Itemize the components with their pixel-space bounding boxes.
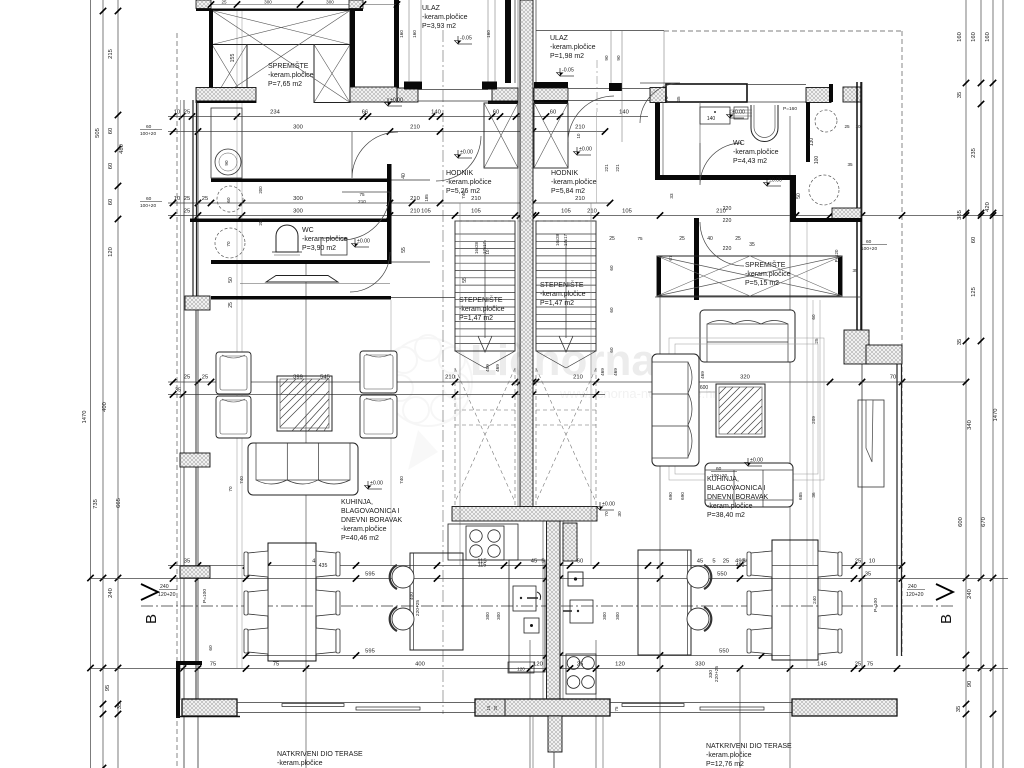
wc left toilet [276, 225, 298, 252]
svg-text:±0.00: ±0.00 [390, 98, 403, 104]
svg-text:25: 25 [814, 338, 819, 344]
svg-text:33: 33 [669, 193, 674, 199]
svg-text:550: 550 [719, 649, 729, 655]
sink right [570, 600, 593, 623]
svg-text:690: 690 [680, 492, 685, 500]
counter box 120 left [508, 662, 534, 673]
svg-text:210: 210 [358, 199, 366, 204]
svg-text:P=100: P=100 [873, 598, 879, 612]
svg-text:70: 70 [226, 241, 231, 247]
svg-text:P=4,43 m2: P=4,43 m2 [733, 158, 767, 165]
svg-text:60: 60 [108, 199, 114, 205]
svg-text:35: 35 [865, 572, 871, 578]
dim line y131 [168, 131, 605, 133]
dim line y215 full width [168, 215, 1003, 217]
svg-text:209: 209 [811, 416, 816, 424]
svg-text:35: 35 [957, 339, 963, 345]
island left unit [410, 553, 463, 650]
svg-text:100: 100 [814, 156, 820, 165]
svg-text:469: 469 [495, 364, 500, 372]
svg-text:60: 60 [609, 307, 614, 313]
svg-text:420: 420 [985, 202, 991, 212]
svg-text:10: 10 [869, 559, 875, 565]
stair flight left outline [455, 221, 515, 351]
svg-text:220: 220 [723, 206, 732, 212]
right unit hatched pier wc north [806, 88, 831, 103]
dining chair right 1 [751, 551, 772, 577]
wc right west edge line [699, 102, 701, 175]
central party wall upper [520, 0, 533, 507]
svg-text:-0.05: -0.05 [562, 68, 574, 74]
terrace wall hatched left cap [182, 699, 237, 716]
svg-text:120+20: 120+20 [158, 592, 176, 598]
svg-text:105: 105 [471, 209, 481, 215]
svg-text:WC: WC [733, 140, 745, 147]
washing machine circle [215, 149, 241, 175]
svg-text:25: 25 [202, 375, 208, 381]
svg-text:35: 35 [852, 268, 858, 273]
level mark top left [385, 98, 404, 107]
svg-text:210: 210 [410, 125, 420, 131]
sofa right unit south [705, 463, 793, 507]
stair dashed top boundary [455, 220, 596, 222]
door axis dash-dot ulaz right [596, 60, 598, 112]
svg-text:-keram.pločice: -keram.pločice [745, 271, 791, 278]
ulaz right top edge line [536, 30, 664, 32]
svg-text:45: 45 [531, 559, 537, 565]
svg-text:215: 215 [108, 49, 114, 59]
svg-text:HODNIK: HODNIK [446, 170, 474, 177]
svg-text:100+20: 100+20 [861, 246, 877, 252]
svg-text:P=100: P=100 [202, 589, 208, 603]
svg-text:1470: 1470 [82, 411, 88, 424]
stove left [466, 526, 504, 560]
svg-text:P=3,93 m2: P=3,93 m2 [422, 23, 456, 30]
svg-text:399: 399 [293, 375, 303, 381]
svg-text:300: 300 [293, 209, 303, 215]
section marker B right [936, 584, 953, 600]
svg-text:240: 240 [908, 584, 917, 590]
svg-text:NATKRIVENI DIO TERASE: NATKRIVENI DIO TERASE [706, 743, 792, 750]
armchair left 1 [216, 352, 251, 394]
svg-text:-keram.pločice: -keram.pločice [550, 44, 596, 51]
svg-text:55: 55 [401, 247, 407, 253]
svg-text:70: 70 [604, 511, 610, 517]
dining chair left 1 [248, 551, 268, 577]
svg-text:469: 469 [600, 368, 605, 376]
svg-text:P=12,76 m2: P=12,76 m2 [706, 761, 744, 768]
svg-text:160: 160 [985, 32, 991, 42]
svg-text:P=1,47 m2: P=1,47 m2 [540, 300, 574, 307]
svg-text:595: 595 [365, 649, 375, 655]
ulaz right mullions [610, 31, 612, 83]
svg-text:-keram.pločice: -keram.pločice [733, 149, 779, 156]
svg-text:60: 60 [609, 347, 614, 353]
svg-text:740: 740 [399, 476, 404, 484]
svg-text:SPREMIŠTE: SPREMIŠTE [268, 61, 309, 70]
svg-text:-keram.pločice: -keram.pločice [268, 72, 314, 79]
svg-text:60: 60 [146, 196, 152, 202]
dining chair right 6 [818, 628, 838, 654]
svg-text:125: 125 [971, 287, 977, 297]
level mark wc right shelf [727, 110, 746, 119]
svg-text:25: 25 [723, 559, 729, 565]
svg-text:55: 55 [462, 277, 468, 283]
svg-text:740: 740 [461, 191, 466, 199]
island stool right 1 [687, 566, 709, 588]
svg-text:120: 120 [108, 247, 114, 257]
left unit wardrobe trapezoid [266, 276, 338, 283]
svg-text:435: 435 [319, 563, 328, 569]
svg-text:60: 60 [866, 239, 872, 245]
svg-text:P=5,15 m2: P=5,15 m2 [745, 280, 779, 287]
stove right [566, 654, 596, 694]
level mark living left [365, 481, 384, 490]
dining chair right 2 [751, 590, 772, 616]
svg-text:95: 95 [105, 685, 111, 691]
svg-text:120: 120 [517, 667, 525, 672]
wall layer line left [180, 100, 182, 700]
svg-text:240: 240 [160, 584, 169, 590]
svg-text:B: B [938, 614, 955, 624]
svg-text:480: 480 [119, 144, 125, 154]
svg-text:210: 210 [575, 196, 585, 202]
terrace wall hatched right cap [792, 699, 897, 716]
svg-text:60: 60 [146, 124, 152, 130]
svg-text:35: 35 [847, 162, 853, 167]
svg-text:-keram.pločice: -keram.pločice [302, 236, 348, 243]
svg-text:60: 60 [208, 645, 214, 651]
storage spremiste right X box [657, 256, 842, 296]
svg-text:-keram.pločice: -keram.pločice [459, 306, 505, 313]
svg-text:75: 75 [614, 706, 619, 711]
armchair left 4 [360, 395, 397, 438]
svg-text:300: 300 [615, 612, 620, 620]
dim line y394 [168, 394, 605, 396]
left unit corridor north wall [211, 179, 391, 183]
stair flight right outline [536, 221, 596, 351]
dashed setback line top right [664, 30, 902, 32]
svg-text:120: 120 [533, 662, 543, 668]
axis dash-dot vertical [442, 30, 444, 714]
ulaz left window mullions [408, 0, 410, 82]
svg-text:210: 210 [410, 209, 420, 215]
island stool left 1 [392, 566, 414, 588]
axis extension lines 237 242 [236, 10, 238, 668]
svg-text:WC: WC [302, 227, 314, 234]
svg-text:220+25: 220+25 [714, 666, 720, 682]
svg-text:210: 210 [575, 125, 585, 131]
svg-text:90: 90 [604, 55, 609, 61]
island right unit [638, 550, 691, 655]
left unit wc south wall [211, 260, 391, 264]
svg-text:40: 40 [401, 173, 407, 179]
svg-text:221: 221 [615, 164, 620, 172]
svg-text:469: 469 [613, 368, 618, 376]
left unit west pier black [209, 10, 213, 88]
central wall stem below [548, 716, 562, 752]
svg-text:ULAZ: ULAZ [422, 5, 441, 12]
svg-text:35: 35 [676, 96, 681, 102]
svg-text:160: 160 [957, 32, 963, 42]
right unit wc south wall [796, 218, 862, 222]
svg-text:35: 35 [749, 242, 755, 248]
sliding door left unit [237, 702, 475, 704]
svg-text:35: 35 [957, 92, 963, 98]
svg-text:±0.00: ±0.00 [460, 150, 473, 156]
door arc living left [350, 252, 390, 292]
level mark ulaz right [557, 68, 575, 77]
door arc wc left [342, 192, 390, 240]
dining chair left 3 [248, 628, 268, 654]
svg-text:70: 70 [890, 375, 896, 381]
stair cut line right [536, 351, 566, 368]
svg-text:10: 10 [485, 249, 490, 254]
svg-text:B: B [143, 614, 160, 624]
washer niche frame [211, 108, 242, 178]
svg-text:100+20: 100+20 [711, 473, 727, 479]
svg-text:10: 10 [174, 110, 180, 116]
stair cut line left [455, 351, 485, 368]
door arc hodnik right [640, 83, 680, 123]
dining chair left 4 [316, 551, 336, 577]
left unit corridor east wall [387, 164, 392, 264]
right unit closet at entry [666, 84, 747, 102]
svg-text:-keram.pločice: -keram.pločice [706, 752, 752, 759]
svg-text:30: 30 [617, 511, 623, 517]
svg-text:90: 90 [616, 55, 621, 61]
stair treads left [455, 233, 515, 235]
level mark ulaz left [455, 36, 473, 45]
sink left [513, 586, 536, 611]
kitchen left lower counter [509, 560, 545, 672]
svg-text:140: 140 [431, 110, 441, 116]
svg-text:160: 160 [486, 30, 491, 38]
svg-text:10: 10 [576, 133, 581, 138]
svg-text:160: 160 [399, 30, 404, 38]
svg-text:1470: 1470 [993, 409, 999, 422]
svg-text:60: 60 [108, 128, 114, 134]
svg-text:330: 330 [695, 662, 705, 668]
svg-text:220+25: 220+25 [415, 600, 421, 616]
window X column right [314, 45, 350, 103]
dining chair left 2 [248, 590, 268, 616]
svg-text:300: 300 [485, 612, 490, 620]
level mark wc left [352, 239, 371, 248]
svg-text:P=5,84 m2: P=5,84 m2 [551, 188, 585, 195]
entry threshold lines left unit [418, 89, 488, 91]
svg-text:P=40,46 m2: P=40,46 m2 [341, 535, 379, 542]
svg-text:60: 60 [609, 265, 614, 271]
svg-text:220: 220 [723, 218, 732, 224]
door arc ulaz left [436, 136, 481, 181]
svg-text:600: 600 [700, 385, 709, 391]
wall [394, 0, 399, 88]
svg-text:17x17: 17x17 [563, 233, 568, 246]
right unit wc west verticals [655, 103, 660, 177]
left unit west wall upper [192, 100, 194, 180]
dishwasher left [524, 618, 539, 633]
svg-text:±0.00: ±0.00 [750, 458, 763, 464]
svg-text:-0.05: -0.05 [460, 36, 472, 42]
svg-text:665: 665 [116, 498, 122, 508]
svg-text:210: 210 [587, 209, 597, 215]
dining chair left 5 [316, 590, 336, 616]
wc left small shelf [321, 238, 347, 255]
svg-text:60: 60 [811, 314, 816, 320]
svg-text:220: 220 [723, 246, 732, 252]
svg-text:505: 505 [95, 128, 101, 138]
svg-text:NATKRIVENI DIO TERASE: NATKRIVENI DIO TERASE [277, 751, 363, 758]
svg-text:300: 300 [326, 0, 334, 5]
wc right bathtub [751, 105, 778, 142]
svg-text:234: 234 [270, 110, 280, 116]
svg-text:320: 320 [740, 375, 750, 381]
svg-text:330: 330 [708, 670, 714, 678]
svg-text:DNEVNI BORAVAK: DNEVNI BORAVAK [707, 494, 769, 501]
dim line y203 [168, 202, 610, 204]
dining table left unit [268, 543, 316, 661]
svg-text:25: 25 [735, 236, 741, 242]
hatched band below storage right [350, 87, 397, 102]
right unit east wall step 2 [866, 345, 902, 364]
level mark hodnik right [574, 147, 593, 156]
left unit hatch block 1 [185, 296, 210, 310]
svg-text:25: 25 [855, 559, 861, 565]
svg-text:160: 160 [971, 32, 977, 42]
hatched band below storage left [196, 88, 256, 103]
svg-text:400: 400 [102, 402, 108, 412]
dim line y565 [168, 565, 902, 567]
svg-text:70: 70 [664, 96, 669, 102]
svg-text:-keram.pločice: -keram.pločice [551, 179, 597, 186]
svg-text:340: 340 [967, 420, 973, 430]
island stool left 2 [392, 608, 414, 630]
svg-text:60: 60 [577, 559, 583, 565]
storage bottom line [655, 296, 862, 298]
svg-text:BLAGOVAONICA I: BLAGOVAONICA I [341, 508, 400, 515]
svg-text:25: 25 [184, 209, 190, 215]
svg-text:60: 60 [226, 197, 231, 203]
svg-text:25: 25 [202, 196, 208, 202]
svg-text:-keram.pločice: -keram.pločice [540, 291, 586, 298]
rug frame right unit [669, 338, 824, 480]
svg-text:300: 300 [602, 612, 607, 620]
door arc living right [700, 222, 744, 266]
coffee table left unit [277, 376, 332, 431]
svg-text:735: 735 [93, 499, 99, 509]
right unit wall segment at wc north [747, 84, 806, 86]
svg-text:10: 10 [855, 124, 861, 129]
svg-text:25: 25 [855, 662, 861, 668]
wc right shelf [700, 107, 730, 124]
level mark wc right [764, 178, 783, 187]
right dimension chain lines [965, 0, 967, 768]
svg-text:25: 25 [228, 302, 234, 308]
svg-text:100+20: 100+20 [140, 203, 156, 209]
left chain ticks [115, 8, 121, 14]
svg-text:300: 300 [496, 612, 501, 620]
svg-text:36: 36 [811, 492, 816, 498]
svg-text:STEPENIŠTE: STEPENIŠTE [540, 280, 584, 289]
window X column left [212, 45, 247, 103]
hatched pier at entry left [397, 88, 418, 102]
svg-text:75: 75 [637, 236, 643, 241]
armchair left 2 [216, 396, 251, 438]
central party wall lower [547, 521, 561, 699]
svg-text:550: 550 [717, 572, 727, 578]
dining chair right 5 [818, 590, 838, 616]
svg-text:75: 75 [210, 662, 216, 668]
terrace wall hatched center [475, 699, 610, 716]
svg-text:90: 90 [967, 681, 973, 687]
central cross band [452, 507, 597, 522]
left unit hatch block 2 [180, 453, 210, 467]
svg-text:40: 40 [707, 236, 713, 242]
watermark logo [384, 335, 472, 470]
svg-text:±0.00: ±0.00 [357, 239, 370, 245]
coffee table right unit [716, 384, 765, 437]
svg-text:KUHINJA,: KUHINJA, [341, 499, 373, 506]
svg-text:60: 60 [716, 466, 722, 472]
kitchen right wall pier [563, 523, 577, 561]
svg-text:5: 5 [712, 559, 715, 565]
svg-text:P=7,65 m2: P=7,65 m2 [268, 81, 302, 88]
door arc hodnik left [352, 132, 398, 178]
svg-text:25: 25 [844, 124, 850, 129]
right unit east wall [856, 82, 858, 330]
island stool right 2 [687, 608, 709, 630]
svg-text:P=1,98 m2: P=1,98 m2 [550, 53, 584, 60]
sofa left unit [248, 443, 358, 495]
svg-text:35: 35 [184, 559, 190, 565]
dining chair right 3 [751, 628, 772, 654]
svg-text:145: 145 [817, 662, 827, 668]
door leaf pocket right [858, 400, 884, 487]
svg-text:25: 25 [184, 196, 190, 202]
svg-text:60: 60 [108, 163, 114, 169]
stair dashed void left [454, 368, 456, 506]
dashed setback line right [901, 31, 903, 656]
dashed circle boiler 70 [215, 228, 245, 258]
left unit corridor south wall / wc north [190, 219, 391, 223]
left unit hatch block 3 [180, 566, 210, 578]
dim line y382 [168, 381, 966, 383]
svg-text:115: 115 [478, 563, 487, 569]
svg-text:105: 105 [561, 209, 571, 215]
right unit entry wall black bar [534, 82, 568, 89]
right unit hatched band wc south-east [832, 208, 861, 221]
svg-text:±0.00: ±0.00 [769, 178, 782, 184]
svg-text:P=38,40 m2: P=38,40 m2 [707, 512, 745, 519]
svg-text:10: 10 [174, 196, 180, 202]
section marker B left [141, 584, 158, 600]
stair side extension lines [459, 203, 461, 565]
armchair left 3 [360, 351, 397, 393]
svg-text:240: 240 [812, 596, 817, 604]
svg-text:140: 140 [619, 110, 629, 116]
dim line y655 [245, 655, 790, 657]
svg-text:105: 105 [622, 209, 632, 215]
svg-text:20: 20 [493, 705, 498, 710]
window X box left unit east [484, 103, 518, 168]
svg-text:25: 25 [609, 236, 615, 242]
svg-text:90: 90 [224, 160, 229, 166]
svg-text:35: 35 [956, 706, 962, 712]
svg-text:300: 300 [264, 0, 272, 5]
sliding door right unit [610, 702, 792, 704]
stair direction arrow left [484, 240, 486, 338]
